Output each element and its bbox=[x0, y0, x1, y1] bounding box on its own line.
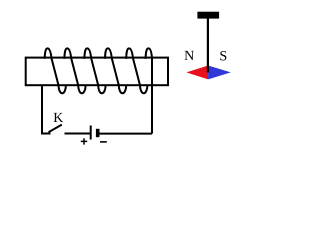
coil turn 4: loop over bar, crossing wire, bottom loop bbox=[105, 48, 126, 93]
coil turn 3: loop over bar, crossing wire, bottom loop bbox=[84, 48, 105, 93]
wire: bottom wire right segment (battery to right corner) bbox=[99, 133, 153, 135]
compass needle: red half (N, pointing left) bbox=[186, 66, 208, 80]
core bar rectangle bbox=[26, 58, 168, 86]
battery cell: long plate (+) bbox=[90, 126, 92, 140]
compass stand: rod bbox=[207, 18, 209, 72]
coil turn 1: loop over bar, crossing wire, bottom loop bbox=[45, 48, 66, 93]
coil turn 6: loop over bar joining right lead bbox=[146, 48, 153, 133]
wire: left lead from coil down to switch bbox=[41, 85, 43, 134]
wire: bottom wire left segment (switch to battery) bbox=[65, 133, 91, 135]
label + bbox=[81, 138, 87, 144]
compass needle: blue half (S, pointing right) bbox=[208, 66, 231, 80]
compass stand: T bar bbox=[197, 12, 219, 19]
label N bbox=[185, 51, 194, 60]
switch K blade bbox=[41, 125, 62, 134]
label K bbox=[54, 113, 64, 122]
label S bbox=[220, 51, 226, 60]
battery cell: short thick plate (-) bbox=[96, 129, 100, 137]
coil turn 5: loop over bar, crossing wire, bottom loop bbox=[126, 48, 147, 93]
coil turn 2: loop over bar, crossing wire, bottom loop bbox=[64, 48, 85, 93]
label - bbox=[100, 141, 107, 143]
